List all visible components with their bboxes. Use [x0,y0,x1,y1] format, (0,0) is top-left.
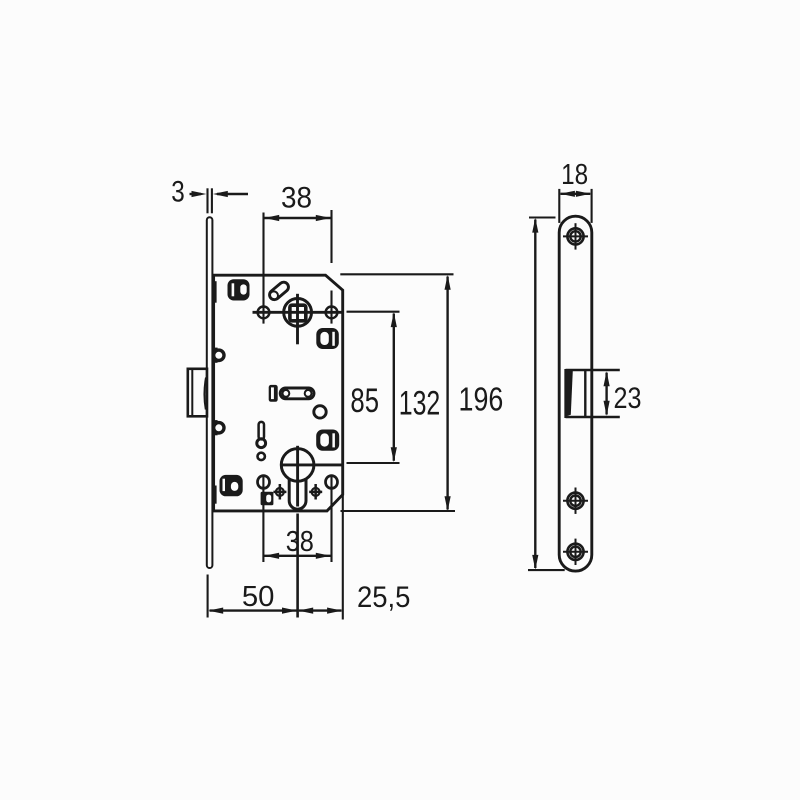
dimension 38 top: line and arrows [264,217,332,219]
follower square spindle hub [284,299,312,327]
dimension 38 top: extension lines [262,213,264,324]
svg-text:18: 18 [561,159,588,191]
post top-left [228,279,250,300]
svg-text:3: 3 [171,176,185,209]
small circle mid [314,406,326,418]
screw hole middle [563,488,588,514]
svg-text:23: 23 [614,382,642,415]
svg-text:38: 38 [286,526,314,558]
fixing rosette left [273,484,286,500]
handle screw hole upper-right [326,307,338,319]
svg-text:50: 50 [242,581,275,613]
lock body outline [214,275,343,511]
dimension 38 bottom: extension lines [262,475,264,563]
horizontal slot mid [280,388,314,399]
svg-text:25,5: 25,5 [357,581,411,614]
dimension 85: extension lines [347,311,400,313]
drop slot [259,422,264,440]
dimension 23: line and arrows [605,373,607,415]
spring ear lower on body edge [214,420,224,435]
post mid-right [316,328,339,349]
edge bar lower [213,486,216,504]
dimension 50: line and arrows [210,609,297,611]
svg-text:132: 132 [399,384,441,422]
dimension 50: extension line [207,575,209,618]
latch bolt face line [191,370,193,416]
dimension 38 bottom: line and arrows [263,555,331,557]
edge bar upper [213,281,216,303]
svg-text:85: 85 [350,382,379,420]
diagonal slot [268,280,291,301]
dimension 3 arrow right [217,193,248,195]
fixing rosette right [309,484,322,500]
small slot mid [269,385,278,402]
screw hole bottom [563,539,588,565]
cylinder axis extension line [296,514,299,618]
dimension 196: extension lines [529,216,556,218]
dimension 196: line and arrows [534,220,536,569]
svg-text:38: 38 [281,182,312,215]
latch bolt [188,369,207,417]
follower centerline vertical [296,294,299,345]
cylinder centerline horizontal [280,463,341,466]
dimension 18: line and arrows [561,193,591,195]
follower centerline horizontal [253,311,342,314]
dimension 25,5: line and arrows [299,609,342,611]
clip under lower-left hole [261,492,274,505]
latch bolt bevel arc [204,378,206,410]
euro cylinder hole [281,449,314,482]
handle screw hole upper-left [258,307,270,319]
spring ear upper on body edge [214,348,224,363]
svg-text:196: 196 [459,380,504,417]
tiny circle below drop slot [258,453,265,460]
handle screw hole lower-left [258,476,270,489]
dimension 25,5: extension line [342,495,344,620]
cylinder centerline vertical [296,446,299,507]
post lower-right [316,430,339,451]
latch opening with latch [566,369,620,372]
dimension 132: line and arrows [446,277,448,510]
extension ticks above faceplate for dim 3 [206,188,208,213]
dimension 3 arrow left [190,193,202,195]
post bottom-left [220,475,243,496]
faceplate side view [207,217,213,568]
dimension 132: extension lines [340,273,453,275]
screw hole top [563,223,588,249]
dimension 18: extension lines [558,189,560,223]
faceplate front view [559,216,592,571]
dimension 85: line and arrows [393,314,395,461]
handle screw hole lower-right [326,476,338,489]
